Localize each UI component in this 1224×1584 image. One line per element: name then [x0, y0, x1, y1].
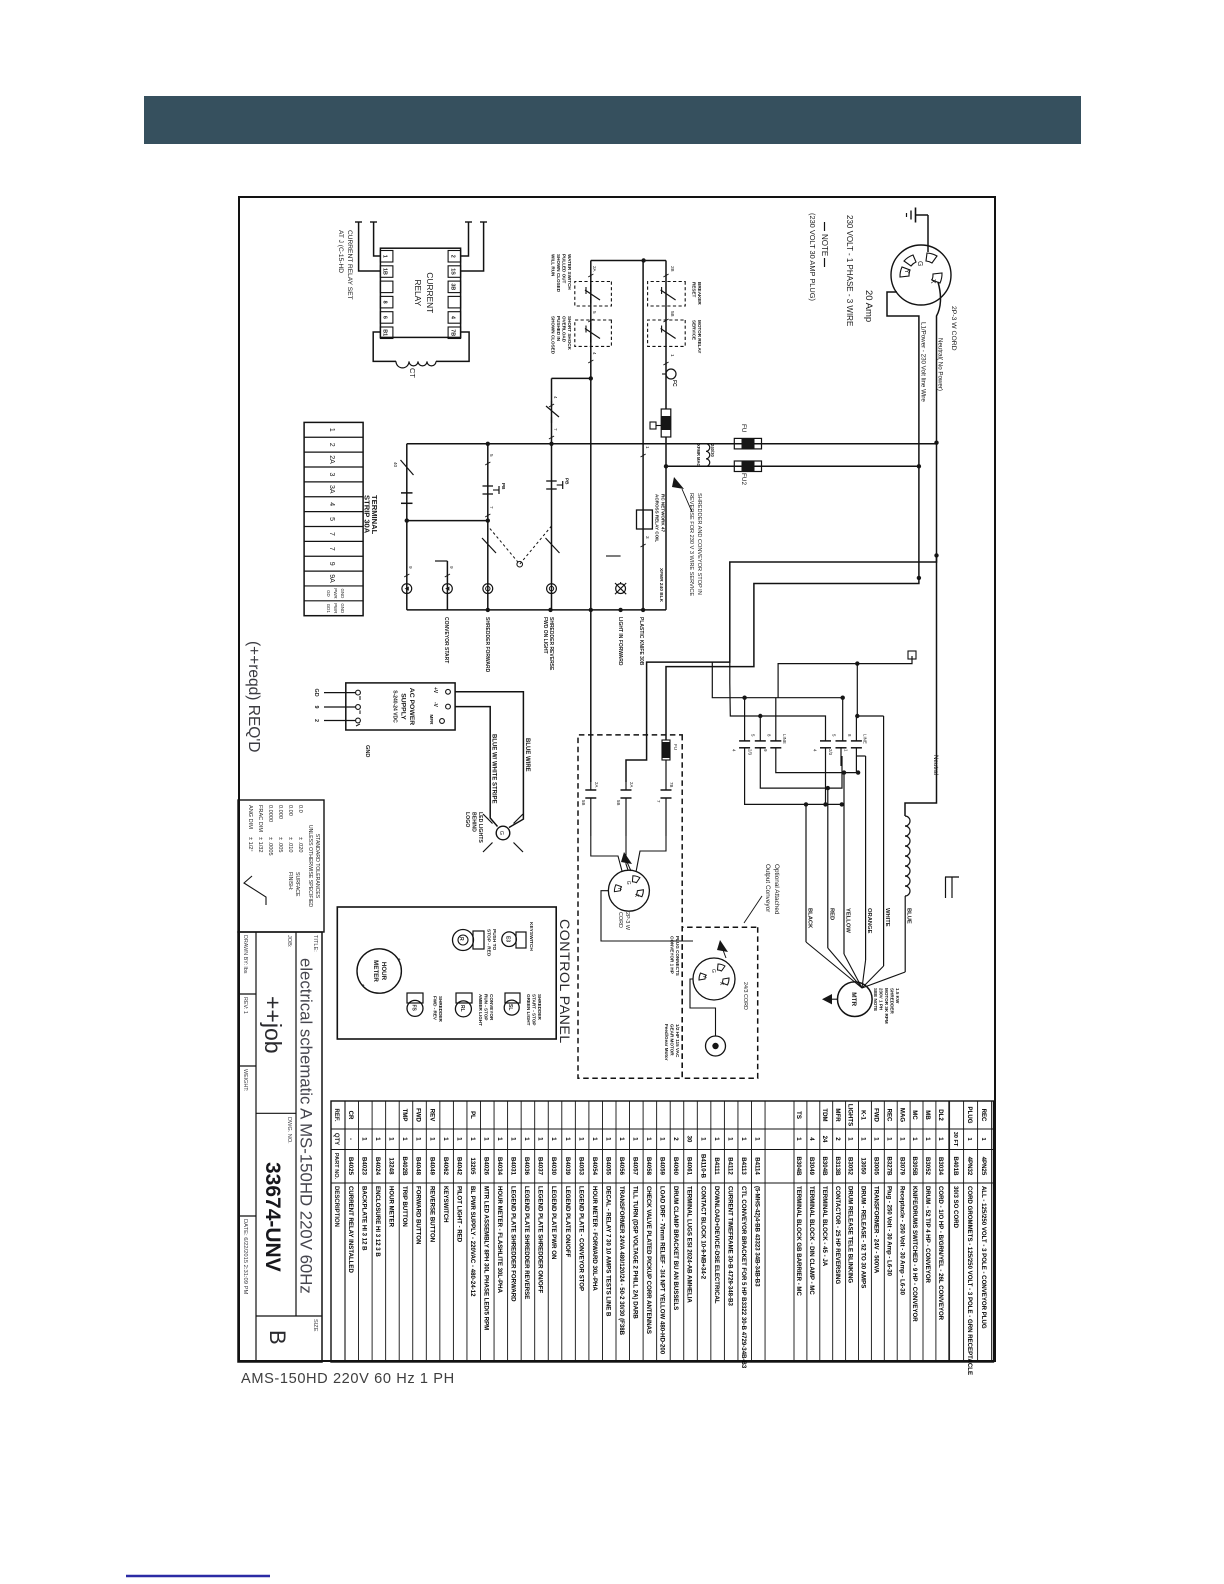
svg-text:B4025: B4025: [347, 1157, 354, 1176]
svg-text:NOTE: NOTE: [820, 234, 829, 256]
switch on bottom row: [393, 460, 414, 475]
svg-text:1: 1: [428, 1137, 435, 1141]
svg-text:FU: FU: [673, 744, 678, 750]
svg-text:B3005: B3005: [873, 1157, 880, 1176]
run capacitor C2: [616, 782, 634, 836]
svg-text:B3052: B3052: [847, 1157, 854, 1176]
weight cell: [242, 1069, 248, 1091]
svg-text:B304B: B304B: [795, 1157, 802, 1177]
svg-text:PILOT LIGHT - RED: PILOT LIGHT - RED: [455, 1186, 462, 1243]
label S2: [478, 994, 494, 1026]
label overload switch: [551, 316, 573, 355]
svg-text:1: 1: [469, 1137, 476, 1141]
RC network box: [637, 510, 653, 529]
svg-text:1: 1: [670, 354, 675, 357]
node junction: [641, 258, 645, 262]
svg-text:PUSHED IN: PUSHED IN: [556, 316, 561, 342]
svg-text:B4053: B4053: [577, 1157, 584, 1176]
svg-text:AT J (C-15-HD: AT J (C-15-HD: [337, 230, 344, 273]
svg-text:230 VOLT - 1 PHASE - 3 WIRE: 230 VOLT - 1 PHASE - 3 WIRE: [845, 215, 854, 326]
svg-text:5: 5: [489, 454, 494, 457]
svg-text:ANG DIM: ANG DIM: [247, 805, 253, 829]
svg-text:B4054: B4054: [591, 1157, 598, 1176]
rail nodes: [486, 608, 646, 612]
svg-text:B4042: B4042: [455, 1157, 462, 1176]
svg-text:MTR: MTR: [850, 992, 857, 1006]
svg-text:FWD ON LIGHT: FWD ON LIGHT: [542, 617, 548, 654]
svg-text:2: 2: [328, 443, 335, 447]
svg-text:4: 4: [808, 1137, 815, 1141]
svg-text:LEGEND PLATE SHREDDER ON/OFF: LEGEND PLATE SHREDDER ON/OFF: [537, 1186, 544, 1293]
svg-text:R: R: [458, 937, 464, 941]
svg-text:RESET: RESET: [692, 282, 697, 298]
svg-text:BEHIND: BEHIND: [471, 812, 477, 832]
run capacitor C3: [656, 760, 674, 836]
transformer secondary stubs: [945, 877, 959, 898]
svg-text:13050: 13050: [860, 1158, 867, 1176]
label RC network: [655, 494, 666, 542]
label keyswitch: [528, 922, 534, 951]
svg-text:2A: 2A: [328, 455, 335, 464]
svg-text:40: 40: [393, 462, 398, 468]
svg-text:X: X: [633, 894, 639, 898]
label 2P-3W CORD: [950, 306, 957, 351]
label note: [820, 222, 829, 267]
contact bars bottom row: [401, 493, 413, 503]
arrow to J3: [717, 940, 728, 958]
svg-text:SHREDDER: SHREDDER: [890, 988, 895, 1014]
label J2 cord: [617, 912, 630, 931]
svg-text:1: 1: [966, 1137, 972, 1140]
svg-text:BL PWR SUPPLY - 220VAC - 480-2: BL PWR SUPPLY - 220VAC - 480-24-12: [469, 1186, 476, 1297]
svg-text:3A: 3A: [328, 485, 335, 494]
svg-text:LOGO: LOGO: [464, 812, 470, 827]
svg-text:PLUG: PLUG: [966, 1107, 973, 1124]
receptacle J3: [693, 958, 735, 1000]
label 230V 1 phase: [845, 215, 854, 326]
label gear motor: [664, 1024, 680, 1061]
receptacle J2: [608, 870, 649, 911]
svg-text:MOTOR 3K RPM: MOTOR 3K RPM: [884, 988, 889, 1024]
svg-text:9: 9: [328, 562, 335, 566]
svg-text:FRAC DIM: FRAC DIM: [257, 805, 263, 832]
svg-text:9: 9: [313, 706, 319, 709]
svg-text:BLACK: BLACK: [807, 908, 813, 929]
svg-text:3: 3: [645, 536, 650, 539]
svg-text:REVERSE BUTTON: REVERSE BUTTON: [428, 1186, 435, 1242]
svg-text:1: 1: [455, 1137, 462, 1141]
svg-text:B4114: B4114: [753, 1157, 760, 1175]
start capacitor bank group1: [732, 734, 787, 756]
svg-text:DOWNLOAD+DEVICE-DSE ELECTRICAL: DOWNLOAD+DEVICE-DSE ELECTRICAL: [713, 1186, 720, 1304]
svg-text:GD1: GD1: [326, 604, 331, 614]
svg-text:SHORT SHOCK: SHORT SHOCK: [567, 316, 572, 351]
wire lamp feed: [606, 556, 621, 584]
svg-text:2: 2: [313, 719, 319, 722]
svg-text:DRUM - 52 TIP 4 HP - CONVEYOR: DRUM - 52 TIP 4 HP - CONVEYOR: [924, 1186, 931, 1284]
svg-text:X: X: [718, 982, 724, 986]
label GND: [364, 745, 370, 757]
svg-text:7B: 7B: [669, 782, 674, 787]
svg-text:8: 8: [766, 734, 771, 737]
svg-text:1: 1: [659, 1137, 666, 1141]
svg-text:GD: GD: [326, 590, 331, 597]
svg-text:B313B: B313B: [834, 1157, 841, 1177]
svg-text:B3049: B3049: [808, 1157, 815, 1176]
wire row forward: [551, 378, 553, 610]
cap bank wiring left bus2: [730, 662, 826, 741]
svg-text:B4039: B4039: [564, 1157, 571, 1176]
svg-text:FORWARD BUTTON: FORWARD BUTTON: [415, 1186, 422, 1244]
pushbutton reverse: [483, 483, 507, 494]
tolerance block: [238, 800, 324, 932]
svg-text:PL: PL: [469, 1111, 476, 1119]
svg-text:3B: 3B: [449, 283, 455, 290]
svg-text:4: 4: [592, 352, 597, 355]
svg-text:1: 1: [873, 1137, 880, 1141]
rev cell: [242, 997, 248, 1014]
fuse FU3: [662, 740, 678, 760]
svg-text:LINE: LINE: [862, 734, 867, 744]
svg-text:X: X: [929, 279, 936, 284]
svg-text:PULLED OUT: PULLED OUT: [562, 254, 567, 284]
svg-text:4: 4: [813, 749, 818, 752]
schematic drawing rotated 90deg: [238, 197, 995, 1375]
svg-text:TRIP BUTTON: TRIP BUTTON: [401, 1186, 408, 1227]
svg-text:2/3: 2/3: [747, 749, 752, 756]
svg-text:1: 1: [401, 1137, 408, 1141]
label LED lights behind logo: [464, 812, 483, 843]
node chain1 branch: [589, 376, 593, 380]
svg-text:2: 2: [672, 1137, 679, 1141]
svg-text:7: 7: [328, 547, 335, 551]
svg-text:1: 1: [577, 1137, 584, 1141]
svg-text:G: G: [498, 831, 504, 835]
node on neutral at branch A: [934, 553, 938, 557]
svg-text:MTR LED ASSEMBLY 8PH 30L PHASE: MTR LED ASSEMBLY 8PH 30L PHASE LED/5 RPM: [482, 1186, 489, 1330]
title block: [238, 932, 322, 1362]
switch reverse row: [482, 538, 496, 553]
svg-text:KNIFE/DRUMS SWITCHED - 9 HP -: KNIFE/DRUMS SWITCHED - 9 HP - CONVEYOR: [911, 1186, 918, 1322]
switch forward2: [546, 538, 560, 553]
label optional attached output conveyor: [764, 864, 780, 915]
svg-text:0.000: 0.000: [277, 805, 283, 819]
svg-text:FWD - REV: FWD - REV: [433, 996, 438, 1021]
svg-text:SL: SL: [507, 1004, 513, 1010]
svg-text:Y: Y: [903, 269, 910, 274]
svg-text:1: 1: [442, 1137, 449, 1141]
nodes right buses: [823, 770, 860, 806]
svg-text:DATE: 6/22/2015 2:31:09 PM: DATE: 6/22/2015 2:31:09 PM: [242, 1219, 248, 1294]
svg-text:TERMINAL BLOCK - DIN CLAMP - M: TERMINAL BLOCK - DIN CLAMP - MC: [808, 1186, 815, 1295]
svg-text:START - STOP: START - STOP: [532, 994, 537, 1025]
label FU1: [740, 424, 747, 433]
label shredder reverse: [542, 617, 554, 671]
svg-text:B4049: B4049: [428, 1157, 435, 1176]
svg-text:SUPPLY: SUPPLY: [400, 693, 407, 720]
svg-text:LIGHT IN FORWARD: LIGHT IN FORWARD: [617, 617, 623, 666]
svg-text:SURFACE: SURFACE: [294, 872, 300, 897]
svg-text:CONTROL PANEL: CONTROL PANEL: [556, 919, 572, 1044]
parts rows lower block: [347, 1101, 765, 1369]
CB tab: [650, 422, 661, 429]
label terminal strip: [363, 495, 380, 535]
svg-text:TRANSFORMER - 24V - 500VA: TRANSFORMER - 24V - 500VA: [873, 1186, 880, 1274]
node on neutral at FU1 branch: [934, 441, 938, 445]
svg-text:DRUM CLAMP BRACKET BU AN BUSSE: DRUM CLAMP BRACKET BU AN BUSSELS: [672, 1186, 679, 1310]
switch S2 run: [455, 993, 472, 1017]
svg-text:240/30: 240/30: [710, 444, 715, 457]
svg-text:GND: GND: [340, 589, 345, 599]
svg-text:B4031: B4031: [510, 1157, 517, 1176]
svg-text:CURRENT TIMEFRAME 30-B 4729-34: CURRENT TIMEFRAME 30-B 4729-348-B3: [726, 1186, 733, 1306]
svg-text:4: 4: [449, 316, 455, 319]
svg-text:5: 5: [751, 734, 756, 737]
contactor coil MAG between branches: [696, 444, 715, 467]
wire relay top pin to terminal C: [461, 222, 472, 256]
svg-text:(5-MHS-42)4-BB 43323 34B-34B-B: (5-MHS-42)4-BB 43323 34B-34B-B3: [753, 1186, 760, 1287]
wire FU2 branch vertical: [666, 465, 919, 467]
svg-text:1: 1: [374, 1137, 381, 1141]
fuse FU1: [734, 438, 761, 449]
wire branch B stepped: [666, 578, 919, 740]
svg-text:SHOWN CLOSED: SHOWN CLOSED: [556, 254, 561, 293]
title text: [312, 935, 318, 952]
svg-text:B1: B1: [382, 329, 388, 336]
svg-text:(230 VOLT 30 AMP PLUG): (230 VOLT 30 AMP PLUG): [808, 213, 817, 301]
svg-text:FINISH:: FINISH:: [287, 872, 293, 890]
PSU label: [392, 688, 416, 725]
svg-text:1: 1: [523, 1137, 530, 1141]
svg-text:electrical schematic A MS-150H: electrical schematic A MS-150HD 220V 60H…: [297, 958, 316, 1294]
svg-text:PWR: PWR: [333, 588, 338, 598]
svg-text:2P-3 W CORD: 2P-3 W CORD: [950, 306, 957, 351]
svg-text:B4024: B4024: [374, 1157, 381, 1176]
svg-text:B327B: B327B: [885, 1157, 892, 1177]
svg-text:SIZE: SIZE: [312, 1319, 318, 1332]
svg-text:BLUE: BLUE: [906, 908, 912, 924]
arrow see-note: [672, 477, 692, 512]
svg-text:4PN32: 4PN32: [966, 1157, 973, 1176]
svg-text:2A: 2A: [592, 266, 597, 273]
svg-text:PUSH TO: PUSH TO: [491, 929, 497, 951]
transformer T1 coil: [905, 816, 910, 896]
wire relay pin1 to terminal: [370, 222, 380, 256]
wires caps to J2: [591, 836, 666, 872]
blue rule bottom: [126, 1575, 270, 1578]
svg-text:Feed/Gear Motor: Feed/Gear Motor: [664, 1024, 669, 1061]
svg-text:PART NO.: PART NO.: [333, 1153, 339, 1180]
arrow to J2: [621, 852, 632, 871]
gear motor GM: [706, 1036, 726, 1056]
svg-text:24/3 CORD: 24/3 CORD: [742, 982, 748, 1010]
svg-text:B4110-B: B4110-B: [699, 1154, 706, 1179]
svg-text:B4037: B4037: [537, 1157, 544, 1176]
svg-text:CORD: CORD: [617, 912, 623, 928]
cap wire: [744, 698, 746, 741]
PSU top terminals: [429, 687, 450, 725]
run capacitor C1: [581, 782, 599, 836]
svg-text:LOAD DRF - 70mm RELIEF - 3/4 N: LOAD DRF - 70mm RELIEF - 3/4 NPT YELLOW …: [659, 1186, 666, 1355]
svg-text:CONVEYOR: CONVEYOR: [489, 994, 494, 1021]
svg-text:GD: GD: [313, 689, 319, 697]
svg-text:STANDARD TOLERANCES: STANDARD TOLERANCES: [314, 834, 320, 899]
wire control chain 2: [665, 261, 667, 610]
svg-text:± .0005: ± .0005: [267, 837, 273, 856]
svg-text:1: 1: [382, 255, 388, 258]
svg-text:30/3 SO CORD: 30/3 SO CORD: [952, 1186, 959, 1229]
label control panel: [556, 919, 572, 1044]
wire motor rail: [407, 609, 666, 611]
svg-text:13248: 13248: [388, 1158, 395, 1176]
svg-text:GREEN LIGHT: GREEN LIGHT: [526, 994, 531, 1026]
label reqd: [245, 641, 262, 753]
svg-text:ALL - 125/250 VOLT - 3 POLE -: ALL - 125/250 VOLT - 3 POLE - CONVEYOR P…: [980, 1186, 987, 1329]
shredder motor MTR: [838, 982, 873, 1017]
header line: [344, 1101, 346, 1362]
svg-text:B4112: B4112: [726, 1157, 733, 1175]
svg-text:B305B: B305B: [911, 1157, 918, 1177]
svg-text:CORD GROMMETS - 125/250 VOLT -: CORD GROMMETS - 125/250 VOLT - 3 POLE - …: [966, 1186, 973, 1375]
svg-text:B3079: B3079: [898, 1157, 905, 1176]
label plastic knife: [638, 617, 644, 666]
svg-text:5: 5: [328, 517, 335, 521]
svg-text:CT: CT: [408, 368, 417, 378]
svg-text:1: 1: [496, 1137, 503, 1141]
drawing border frame: [239, 197, 995, 1361]
switch S3: [504, 993, 520, 1015]
svg-text:PB: PB: [565, 478, 570, 485]
svg-text:YELLOW: YELLOW: [845, 908, 851, 933]
svg-text:WHITE: WHITE: [884, 908, 890, 927]
label blue white stripe: [491, 734, 497, 804]
svg-text:B4111: B4111: [713, 1157, 720, 1175]
job cell: [286, 935, 292, 948]
svg-text:B402B: B402B: [401, 1157, 408, 1177]
svg-text:++job: ++job: [260, 996, 286, 1054]
svg-text:MB: MB: [924, 1110, 931, 1120]
svg-text:TILL TURN (DSP VOLTAGE 2 PHILL: TILL TURN (DSP VOLTAGE 2 PHILL 2A) DARB: [632, 1186, 639, 1319]
label blue wire: [524, 738, 530, 772]
svg-text:PWR: PWR: [333, 603, 338, 613]
svg-text:± .020: ± .020: [297, 837, 303, 853]
svg-text:1: 1: [618, 1137, 625, 1141]
svg-text:LEGEND PLATE - CONVEYOR STOP: LEGEND PLATE - CONVEYOR STOP: [577, 1186, 584, 1291]
relay pin boxes bottom row: [380, 251, 393, 339]
svg-text:CONTACTOR - 25 HP REVERSING: CONTACTOR - 25 HP REVERSING: [834, 1186, 841, 1284]
svg-text:B4060: B4060: [672, 1157, 679, 1176]
svg-text:AMS-150HD 220V 60 Hz 1 PH: AMS-150HD 220V 60 Hz 1 PH: [241, 1371, 455, 1387]
svg-text:(++reqd) REQ'D: (++reqd) REQ'D: [245, 641, 262, 753]
node link bottom: [405, 518, 409, 522]
svg-text:PB: PB: [501, 483, 506, 490]
svg-text:S-240-24 VDC: S-240-24 VDC: [392, 690, 398, 723]
wire FU1 branch vertical: [407, 443, 937, 445]
relay pin boxes top row: [448, 251, 461, 339]
svg-text:5B: 5B: [581, 800, 586, 805]
wire relay top pin to terminal D: [461, 222, 487, 271]
wire J2 to J3 plug: [601, 891, 693, 941]
label shredder conveyor note: [688, 493, 702, 596]
label shredder motor specs: [873, 988, 900, 1024]
svg-text:CONTACT BLOCK 10-9-NB+34-2: CONTACT BLOCK 10-9-NB+34-2: [699, 1186, 706, 1280]
svg-text:SHREDDER AND CONVEYOR STOP IN: SHREDDER AND CONVEYOR STOP IN: [696, 493, 702, 595]
node on L1 end branch B: [917, 576, 921, 580]
svg-text:33674-UNV: 33674-UNV: [261, 1162, 284, 1272]
motor lead fan wires: [804, 714, 905, 988]
svg-text:30: 30: [686, 1136, 693, 1143]
wire PSU +V to LED: [455, 692, 523, 828]
svg-text:B4023: B4023: [361, 1157, 368, 1176]
svg-text:GND: GND: [340, 603, 345, 613]
svg-text:1: 1: [937, 1137, 944, 1141]
svg-text:13205: 13205: [469, 1158, 476, 1176]
svg-text:4: 4: [553, 396, 558, 399]
node bus2: [758, 714, 762, 718]
svg-text:B4030: B4030: [550, 1157, 557, 1176]
svg-text:1: 1: [898, 1137, 905, 1141]
svg-text:4: 4: [328, 502, 335, 506]
svg-text:FU: FU: [740, 424, 747, 433]
svg-text:L1/Power - 230 Volt line Wire: L1/Power - 230 Volt line Wire: [920, 322, 927, 402]
svg-text:20 Amp: 20 Amp: [863, 290, 874, 322]
wire relay pin2 to terminal: [355, 222, 380, 271]
pushbutton forward: [546, 478, 569, 489]
parts list header: [333, 1108, 339, 1227]
svg-text:LED LIGHTS: LED LIGHTS: [477, 812, 483, 843]
svg-text:WEIGHT:: WEIGHT:: [242, 1069, 248, 1091]
svg-text:B4061: B4061: [686, 1157, 693, 1176]
svg-text:-V: -V: [432, 702, 438, 708]
thermal breaker FC circle: [662, 369, 677, 387]
svg-text:9: 9: [763, 749, 768, 752]
label S1: [433, 996, 444, 1022]
label S3: [526, 994, 542, 1026]
svg-text:7: 7: [553, 428, 558, 431]
mech link dashed: [488, 526, 552, 567]
svg-text:AMBER LIGHT: AMBER LIGHT: [478, 994, 483, 1026]
svg-text:BACKPLATE HI 3 12 B: BACKPLATE HI 3 12 B: [361, 1186, 368, 1251]
svg-text:LEGEND PLATE SHREDDER REVERSE: LEGEND PLATE SHREDDER REVERSE: [523, 1186, 530, 1299]
svg-text:5: 5: [592, 311, 597, 314]
svg-text:DRAWN BY: lbs: DRAWN BY: lbs: [242, 935, 248, 974]
svg-text:E3: E3: [505, 936, 511, 942]
svg-text:7: 7: [489, 506, 494, 509]
wire C feed: [778, 651, 916, 698]
svg-text:DESCRIPTION: DESCRIPTION: [333, 1186, 339, 1227]
switch S1 fwd: [407, 993, 423, 1016]
svg-text:1: 1: [328, 428, 335, 432]
svg-text:HOUR: HOUR: [380, 962, 387, 981]
svg-text:Y: Y: [701, 975, 707, 979]
svg-text:STOP - RED: STOP - RED: [486, 929, 492, 957]
svg-text:ACROSS RELAY COIL: ACROSS RELAY COIL: [655, 494, 660, 542]
svg-text:WATER SWITCH: WATER SWITCH: [567, 254, 572, 290]
label light forward: [617, 617, 623, 666]
svg-text:1: 1: [753, 1137, 760, 1141]
dwg no cell: [286, 1117, 292, 1144]
svg-text:B4059: B4059: [659, 1157, 666, 1176]
svg-text:FWD: FWD: [873, 1108, 880, 1122]
svg-text:2: 2: [834, 1137, 841, 1141]
label water switch: [551, 254, 573, 293]
svg-text:± 1/2°: ± 1/2°: [247, 837, 253, 852]
svg-text:HOUR METER - FORWARD 30L-PHA: HOUR METER - FORWARD 30L-PHA: [591, 1186, 598, 1291]
svg-text:RUN - STOP: RUN - STOP: [484, 994, 489, 1020]
stop button PB-R: [453, 930, 485, 951]
svg-text:B4113: B4113: [740, 1157, 747, 1175]
svg-text:SHREDDER: SHREDDER: [537, 994, 542, 1020]
